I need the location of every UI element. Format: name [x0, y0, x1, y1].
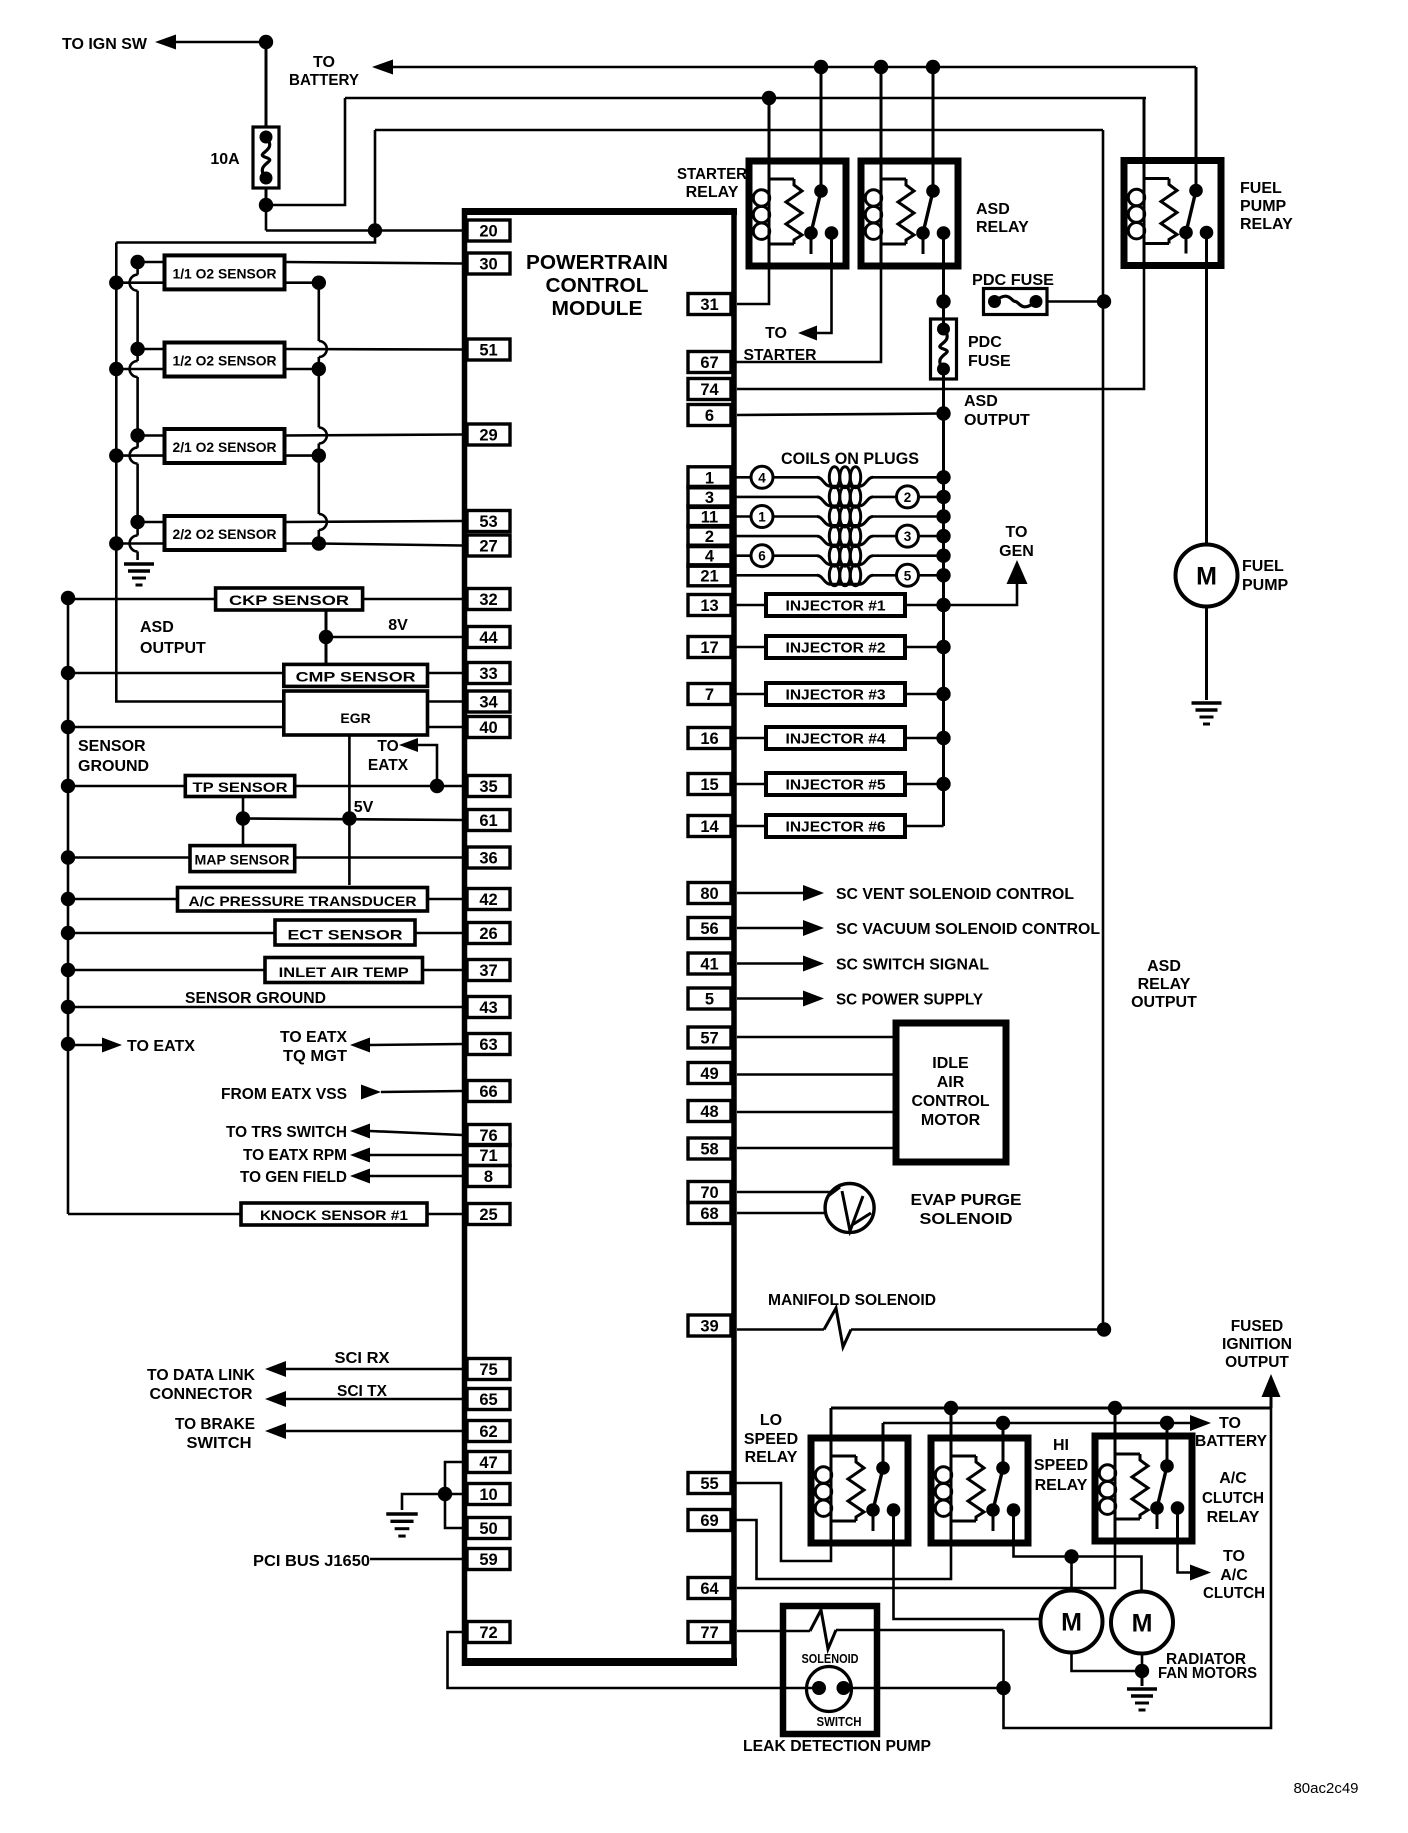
node injector/bus	[936, 687, 950, 701]
wire lower-right	[285, 454, 319, 457]
node coil/bus	[936, 568, 950, 582]
wire PCI BUS to pin 59	[370, 1558, 462, 1561]
node ASD bus junction	[61, 1037, 75, 1051]
PCM pin 75	[467, 1359, 510, 1380]
svg-text:INLET AIR TEMP: INLET AIR TEMP	[279, 964, 409, 980]
PCM pin 34	[467, 691, 510, 712]
node injector/bus	[936, 777, 950, 791]
wire pin 49 to IAC	[737, 1073, 896, 1076]
cylinder number 6	[751, 545, 773, 567]
wire upper-right	[285, 262, 463, 264]
svg-text:LEAK DETECTION PUMP: LEAK DETECTION PUMP	[743, 1738, 931, 1755]
wire to-EATX hook	[418, 745, 437, 786]
PCM pin 41	[688, 953, 731, 974]
idle air control motor box	[896, 1023, 1006, 1162]
svg-text:76: 76	[479, 1127, 497, 1145]
node ground bus junction	[130, 515, 144, 529]
inlet air temp box	[265, 958, 423, 983]
svg-text:1/1 O2 SENSOR: 1/1 O2 SENSOR	[173, 265, 277, 281]
wire lower-left	[116, 368, 164, 371]
wire pin 14 to injector	[731, 825, 766, 828]
MAP sensor box	[190, 846, 295, 872]
svg-text:8V: 8V	[388, 617, 408, 634]
svg-text:RELAY: RELAY	[1035, 1477, 1088, 1494]
O2 sensor 1/2	[165, 343, 285, 377]
wire CKP right to pin 32	[363, 598, 462, 601]
svg-text:37: 37	[479, 962, 497, 980]
PCM pin 25	[467, 1204, 510, 1225]
fuse F1 10A	[253, 127, 279, 188]
wire ECT left	[68, 932, 275, 935]
svg-text:1: 1	[758, 510, 766, 525]
svg-text:20: 20	[479, 223, 497, 241]
PCM pin 66	[467, 1081, 510, 1102]
svg-text:INJECTOR #6: INJECTOR #6	[786, 820, 886, 836]
wire injector to bus	[905, 737, 944, 740]
wire signal bus seg4	[317, 530, 320, 544]
svg-text:FUEL: FUEL	[1242, 558, 1284, 575]
TP sensor box	[185, 776, 294, 797]
PCM pin 30	[467, 253, 510, 274]
wire EGR lower-right to pin 40	[428, 726, 463, 729]
hop signal bus over 1/2 wire	[319, 341, 327, 357]
svg-text:57: 57	[700, 1030, 718, 1048]
wire pin 58 to IAC	[737, 1147, 896, 1150]
wire relay feed line y1408	[831, 1407, 1271, 1410]
node heater bus junction	[109, 448, 123, 462]
svg-text:TO BRAKE: TO BRAKE	[175, 1416, 255, 1433]
svg-text:PDC: PDC	[968, 334, 1002, 351]
svg-text:63: 63	[479, 1036, 497, 1054]
node feed/HI coil	[944, 1401, 958, 1415]
wire pin 72 loop	[448, 1632, 820, 1688]
wire upper-left	[138, 434, 165, 437]
wire node to fuse	[265, 42, 268, 127]
svg-text:70: 70	[700, 1184, 718, 1202]
wire pin 74 to fuel pump coil	[737, 266, 1144, 389]
PCM pin 76	[467, 1125, 510, 1146]
wire circle to coil	[773, 515, 817, 518]
arrow FROM EATX VSS	[361, 1085, 381, 1100]
wire ground bus seg2	[136, 291, 139, 361]
PCM pin 15	[688, 774, 731, 795]
svg-text:3: 3	[705, 489, 714, 507]
wire pin 69 to HI coil	[731, 1520, 951, 1579]
svg-text:INJECTOR #3: INJECTOR #3	[786, 688, 886, 704]
svg-text:69: 69	[700, 1512, 718, 1530]
wire inlet right to pin 37	[423, 969, 463, 972]
wire pin 11 to cyl circle	[731, 515, 751, 518]
PCM pin 4	[688, 545, 731, 566]
svg-text:ASD: ASD	[964, 393, 998, 410]
svg-text:51: 51	[479, 342, 497, 360]
wire bus below fuse	[942, 369, 945, 414]
wire VSS to pin 66	[381, 1091, 462, 1092]
arrow FUSED IGNITION OUTPUT	[1262, 1374, 1281, 1397]
svg-text:2: 2	[904, 490, 912, 505]
svg-text:59: 59	[479, 1551, 497, 1569]
EGR box	[284, 691, 428, 735]
PCM pin 21	[688, 565, 731, 586]
svg-text:32: 32	[479, 591, 497, 609]
wire pin 3 to coil	[731, 496, 817, 499]
ground O2 sensors	[124, 562, 154, 565]
wire AC switch top	[1166, 1423, 1169, 1436]
wire transducer left	[68, 898, 178, 901]
svg-text:SENSOR GROUND: SENSOR GROUND	[185, 990, 326, 1007]
PCM pin 74	[688, 379, 731, 400]
wire knock left to bus	[68, 1213, 241, 1216]
PCM pin 5	[688, 988, 731, 1009]
hop signal bus over 2/2 wire	[319, 514, 327, 530]
svg-text:2/1 O2 SENSOR: 2/1 O2 SENSOR	[173, 439, 277, 455]
PCM pin 20	[467, 220, 510, 241]
svg-text:27: 27	[479, 538, 497, 556]
svg-text:FROM EATX VSS: FROM EATX VSS	[221, 1086, 347, 1103]
wire upper-left	[138, 348, 165, 351]
PCM pin 70	[688, 1182, 731, 1203]
wire signal bus seg3	[317, 444, 320, 515]
svg-text:IGNITION: IGNITION	[1222, 1336, 1292, 1353]
pump switch	[807, 1667, 852, 1712]
node batt/HI switch	[996, 1416, 1010, 1430]
wire pin 4 to cyl circle	[731, 554, 751, 557]
node bus/PDC-H junction	[936, 294, 950, 308]
wire fused line to fuel pump coil	[1143, 98, 1146, 161]
wire EGR bottom drop	[348, 735, 351, 885]
wire manifold to ASD line	[851, 1328, 1104, 1331]
svg-text:CLUTCH: CLUTCH	[1203, 1585, 1265, 1602]
svg-text:13: 13	[700, 597, 718, 615]
leak detection pump box	[783, 1606, 877, 1734]
wire knock right to pin 25	[427, 1213, 462, 1216]
PCM pin 13	[688, 595, 731, 616]
PCM pin 69	[688, 1510, 731, 1531]
svg-text:CKP SENSOR: CKP SENSOR	[229, 592, 349, 608]
ground logic ground	[386, 1512, 418, 1515]
arrow EATX RPM	[350, 1148, 370, 1163]
node EGR/5V junction	[342, 811, 356, 825]
node battery/ASD-switch	[926, 60, 940, 74]
svg-text:PUMP: PUMP	[1240, 198, 1287, 215]
PCM pin 44	[467, 627, 510, 648]
PCM pin 53	[467, 511, 510, 532]
node ASD bus junction	[61, 850, 75, 864]
wire fan2 bottom	[1141, 1654, 1144, 1671]
svg-text:SPEED: SPEED	[744, 1431, 798, 1448]
hop signal bus over 2/1 wire	[319, 428, 327, 444]
wire starter switch top	[820, 67, 823, 161]
wire fan1 top drop	[1070, 1557, 1073, 1591]
svg-text:2/2 O2 SENSOR: 2/2 O2 SENSOR	[173, 526, 277, 542]
wire upper-left	[138, 261, 165, 264]
wire pin 6 to bus	[737, 414, 944, 416]
injector #1 box	[766, 594, 905, 616]
PCM pin 50	[467, 1518, 510, 1539]
wire pin 8 to GEN FIELD	[370, 1175, 462, 1178]
relay ASD RELAY	[861, 161, 958, 266]
wire injector to bus	[905, 783, 944, 786]
node ASD bus junction	[61, 779, 75, 793]
svg-text:MANIFOLD SOLENOID: MANIFOLD SOLENOID	[768, 1292, 936, 1309]
wire ASD coil top	[880, 67, 883, 161]
PCM pin 64	[688, 1578, 731, 1599]
node heater bus junction	[109, 362, 123, 376]
svg-text:A/C: A/C	[1219, 1470, 1247, 1487]
svg-text:41: 41	[700, 956, 718, 974]
wire ign sw to fuse node	[176, 41, 266, 44]
wire ASD switch top	[932, 67, 935, 161]
wire pin 2 to coil	[731, 535, 817, 538]
svg-text:53: 53	[479, 513, 497, 531]
injector #5 box	[766, 773, 905, 795]
svg-text:72: 72	[479, 1624, 497, 1642]
wire AC switch to clutch	[1178, 1541, 1191, 1573]
relay FUEL PUMP RELAY	[1124, 161, 1221, 266]
node coil/bus	[936, 509, 950, 523]
wire pin 10 stub	[445, 1493, 462, 1496]
cylinder number 2	[897, 486, 919, 508]
svg-text:80: 80	[700, 885, 718, 903]
wire pump solenoid out	[836, 1629, 1004, 1632]
wire LO coil top	[830, 1408, 833, 1438]
wire ground bracket 47-50	[445, 1462, 462, 1528]
svg-text:SOLENOID: SOLENOID	[802, 1651, 859, 1666]
wire ground bus seg4	[136, 464, 139, 536]
PCM title	[526, 252, 668, 320]
fuse PDC FUSE vertical	[931, 319, 957, 379]
motor fuel pump	[1176, 545, 1238, 607]
svg-text:CMP SENSOR: CMP SENSOR	[296, 668, 416, 684]
node feed/AC coil	[1108, 1401, 1122, 1415]
wire fused ignition riser	[1270, 1397, 1273, 1408]
svg-text:40: 40	[479, 719, 497, 737]
arrow to EATX	[399, 738, 418, 752]
wire riser x375	[374, 130, 377, 231]
wire upper-right	[285, 435, 463, 436]
wire pump switch out	[844, 1687, 1004, 1690]
svg-text:RELAY: RELAY	[976, 219, 1029, 236]
svg-text:FAN MOTORS: FAN MOTORS	[1158, 1665, 1257, 1682]
wire heater bus x116	[115, 243, 118, 544]
svg-text:INJECTOR #1: INJECTOR #1	[786, 599, 886, 615]
svg-text:SC VACUUM SOLENOID CONTROL: SC VACUUM SOLENOID CONTROL	[836, 921, 1100, 938]
PCM pin 65	[467, 1389, 510, 1410]
wire fuse bottom node	[265, 188, 268, 205]
wire bus to EATX arrow	[68, 1044, 102, 1047]
svg-text:IDLE: IDLE	[932, 1055, 969, 1072]
knock sensor box	[241, 1203, 427, 1225]
hop ground bus over 2/1 wire	[130, 448, 138, 464]
svg-text:36: 36	[479, 850, 497, 868]
wire ground bus x137 seg1	[136, 262, 139, 275]
svg-text:TO IGN SW: TO IGN SW	[62, 36, 148, 53]
arrow to ignition switch	[155, 35, 176, 50]
wire solenoid drop	[1002, 1630, 1005, 1688]
svg-text:SCI RX: SCI RX	[335, 1350, 390, 1367]
wire ASD coil to pin 67	[731, 266, 881, 362]
svg-text:ECT SENSOR: ECT SENSOR	[288, 927, 403, 943]
wire starter switch out	[817, 266, 832, 333]
svg-text:AIR: AIR	[937, 1074, 965, 1091]
wire ignition bus	[942, 414, 945, 827]
wire fuse output to riser	[266, 98, 345, 205]
svg-text:64: 64	[700, 1580, 719, 1598]
wire injector to bus	[905, 646, 944, 649]
PCM pin 61	[467, 810, 510, 831]
node ASD bus junction	[61, 1000, 75, 1014]
PCM pin 58	[688, 1138, 731, 1159]
node pump out junction	[996, 1681, 1010, 1695]
wire AC coil top	[1114, 1408, 1117, 1436]
coil on plug	[817, 575, 873, 584]
wire fuel pump to ground	[1205, 607, 1208, 701]
pump solenoid symbol	[810, 1610, 836, 1649]
wire EGR lower-left	[68, 726, 284, 729]
svg-text:TQ MGT: TQ MGT	[283, 1048, 347, 1065]
svg-text:TO EATX RPM: TO EATX RPM	[243, 1147, 347, 1164]
wire battery line y1423	[883, 1422, 1190, 1425]
PCM pin 56	[688, 918, 731, 939]
PCM pin 80	[688, 883, 731, 904]
wire TP right to pin 35	[295, 785, 462, 788]
hop ground bus over 2/2 wire	[130, 536, 138, 552]
PCM pin 68	[688, 1203, 731, 1224]
node ASD bus junction	[61, 926, 75, 940]
svg-text:10A: 10A	[210, 151, 240, 168]
node fused/starter coil	[762, 91, 776, 105]
svg-text:1: 1	[705, 469, 714, 487]
A/C pressure transducer box	[178, 888, 428, 912]
svg-text:21: 21	[700, 567, 718, 585]
wire MAP left	[68, 856, 190, 859]
svg-text:25: 25	[479, 1206, 497, 1224]
svg-text:OUTPUT: OUTPUT	[140, 640, 206, 657]
ground fuel pump	[1192, 701, 1222, 704]
svg-text:CONTROL: CONTROL	[546, 275, 649, 297]
wire upper-right	[285, 348, 463, 351]
svg-text:8: 8	[484, 1168, 493, 1186]
svg-text:14: 14	[700, 818, 719, 836]
injector #6 box	[766, 815, 905, 837]
CKP sensor box	[216, 588, 363, 610]
PCM pin 32	[467, 589, 510, 610]
svg-text:11: 11	[701, 509, 718, 527]
arrow SC output	[803, 920, 824, 936]
svg-text:34: 34	[479, 694, 498, 712]
svg-text:BATTERY: BATTERY	[289, 72, 359, 89]
O2 sensor 1/1	[165, 255, 285, 289]
svg-text:15: 15	[700, 776, 718, 794]
wire pin 15 to injector	[731, 783, 766, 786]
PCM outline	[462, 208, 737, 1666]
O2 sensor 2/1	[165, 429, 285, 463]
svg-text:30: 30	[479, 256, 497, 274]
wire pin 56 SC	[737, 927, 803, 930]
arrow GEN FIELD	[350, 1169, 370, 1184]
svg-text:RELAY: RELAY	[1240, 216, 1293, 233]
node fuse output	[259, 198, 273, 212]
wire MAP right to pin 36	[295, 856, 462, 859]
svg-text:71: 71	[479, 1147, 497, 1165]
svg-text:EATX: EATX	[368, 757, 409, 774]
wire ASD line top	[1102, 130, 1105, 1330]
PCM pin 71	[467, 1145, 510, 1166]
arrow SCI TX	[265, 1391, 286, 1407]
PCM pin 57	[688, 1027, 731, 1048]
wire pin20 feed	[266, 229, 462, 232]
wire O2 common to pin 27	[319, 544, 462, 546]
svg-text:TO: TO	[1223, 1548, 1245, 1565]
PCM pin 47	[467, 1452, 510, 1473]
wire upper-left	[138, 521, 165, 524]
svg-text:PCI BUS J1650: PCI BUS J1650	[253, 1553, 370, 1570]
svg-text:66: 66	[479, 1083, 497, 1101]
svg-text:HI: HI	[1053, 1437, 1069, 1454]
arrow TO GEN	[1007, 560, 1028, 584]
node ground bus junction	[130, 342, 144, 356]
svg-text:BATTERY: BATTERY	[1195, 1433, 1267, 1450]
wire signal bus x318	[317, 283, 320, 341]
node signal bus junction	[312, 536, 326, 550]
wire pin 5 SC	[737, 997, 803, 1000]
svg-text:5: 5	[705, 991, 714, 1009]
svg-text:OUTPUT: OUTPUT	[1131, 994, 1197, 1011]
wire circle to bus	[919, 496, 944, 499]
svg-text:EGR: EGR	[340, 710, 370, 726]
svg-text:5: 5	[904, 568, 912, 583]
wire LO switch top	[882, 1423, 885, 1438]
svg-text:31: 31	[700, 296, 718, 314]
svg-text:OUTPUT: OUTPUT	[1225, 1354, 1289, 1371]
svg-text:17: 17	[700, 639, 718, 657]
wire HI switch to fan tops	[1014, 1543, 1142, 1591]
svg-text:4: 4	[758, 470, 766, 485]
PCM pin 37	[467, 960, 510, 981]
svg-text:MAP SENSOR: MAP SENSOR	[195, 852, 290, 868]
wire pin 48 to IAC	[737, 1111, 896, 1114]
wire CMP right to pin 33	[428, 672, 463, 675]
wire pin 16 to injector	[731, 737, 766, 740]
O2 sensor 2/2	[165, 516, 285, 550]
wire O2 bus feed y242	[116, 231, 375, 243]
wire pin 55 to LO coil	[731, 1483, 831, 1561]
svg-text:67: 67	[700, 354, 718, 372]
wire pin 21 to coil	[731, 574, 817, 577]
cylinder number 5	[897, 564, 919, 586]
svg-text:SENSOR: SENSOR	[78, 738, 146, 755]
relay STARTER RELAY	[749, 161, 846, 266]
svg-text:CONNECTOR: CONNECTOR	[150, 1386, 253, 1403]
wire CKP left	[68, 598, 216, 601]
node heater bus junction	[109, 276, 123, 290]
wire ASD output bus x68	[67, 598, 70, 1214]
svg-text:61: 61	[479, 812, 497, 830]
arrow SC output	[803, 885, 824, 901]
svg-text:MOTOR: MOTOR	[921, 1112, 981, 1129]
wire pump to fused ignition	[1004, 1408, 1272, 1728]
wire fuse output down to pin20 line	[265, 205, 268, 231]
wire upper-right	[285, 521, 463, 522]
PCM pin 59	[467, 1549, 510, 1570]
svg-text:68: 68	[700, 1205, 718, 1223]
node fan1 top junction	[1064, 1549, 1078, 1563]
PCM pin 39	[688, 1315, 731, 1336]
node signal bus junction	[312, 362, 326, 376]
svg-text:35: 35	[479, 778, 497, 796]
svg-text:47: 47	[479, 1454, 497, 1472]
PCM pin 51	[467, 339, 510, 360]
